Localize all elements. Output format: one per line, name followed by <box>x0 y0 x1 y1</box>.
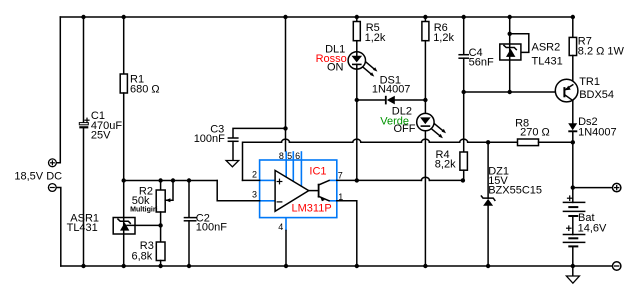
node R2 bus left <box>122 178 126 182</box>
svg-text:100nF: 100nF <box>194 133 225 145</box>
wire C1 column upper <box>83 17 85 123</box>
node bottom bus DZ1 <box>486 264 490 268</box>
node top bus R1 <box>122 15 126 19</box>
wire DS1 right <box>395 99 426 101</box>
label R8 270ohm <box>515 118 550 139</box>
svg-text:5: 5 <box>287 151 292 161</box>
LED DL1 <box>348 52 365 69</box>
wire R4 down <box>463 170 465 180</box>
node bottom bus R3 <box>158 264 162 268</box>
node R2 bus R2 <box>158 178 162 182</box>
wire pin2 feed <box>243 179 260 181</box>
wire R3 to bottom <box>160 261 162 267</box>
svg-text:TL431: TL431 <box>532 55 563 67</box>
node plus output branch <box>571 185 575 189</box>
svg-text:4: 4 <box>278 222 283 232</box>
wire C1 column lower <box>83 127 85 266</box>
LED DL1 arrows <box>363 62 377 76</box>
op-amp IC1 pin stubs <box>260 180 337 230</box>
label C1 470uF 25V <box>91 110 122 142</box>
wire C3 branch <box>233 128 286 137</box>
svg-text:TL431: TL431 <box>67 222 98 234</box>
terminal minus output <box>613 262 621 270</box>
node bottom bus C2 <box>187 264 191 268</box>
label DL2 Verde OFF <box>380 106 415 136</box>
wire R5 stub <box>356 17 358 22</box>
op-amp IC1 frame <box>260 160 337 218</box>
wire ASR1 ref <box>127 224 161 226</box>
wire R2 to R3 <box>160 212 162 242</box>
wire C2 to bottom <box>188 221 190 266</box>
zener DZ1 <box>481 142 495 266</box>
wire right column top <box>572 17 574 37</box>
resistor R7 <box>569 37 576 55</box>
wire Ds2 down <box>572 131 574 202</box>
label R1 680ohm <box>130 74 160 96</box>
resistor R1 <box>120 74 127 93</box>
node R2 bus wiper <box>171 178 175 182</box>
node DS1 right <box>423 98 427 102</box>
node y92 C4 <box>462 90 466 94</box>
trimmer R2 <box>156 181 173 213</box>
svg-text:8.2 Ω 1W: 8.2 Ω 1W <box>578 45 625 57</box>
wire TR1 collector down <box>572 101 574 124</box>
label ASR1 TL431 <box>67 213 99 235</box>
wire sense y142 <box>243 139 518 180</box>
label ASR2 TL431 <box>532 42 563 68</box>
wire R7 to TR1 <box>572 56 574 85</box>
capacitor C4 <box>458 55 469 59</box>
node top bus C1 <box>81 15 85 19</box>
wire ASR2 column <box>509 17 511 92</box>
wire R1 to bottom <box>123 93 125 266</box>
wire C4 to R4 <box>463 58 465 152</box>
ground bottom right <box>566 266 579 283</box>
label C4 56nF <box>469 47 494 68</box>
node top bus R7 <box>571 15 575 19</box>
svg-text:1,2k: 1,2k <box>433 32 454 44</box>
svg-text:14,6V: 14,6V <box>578 223 607 235</box>
node DZ1 top <box>486 140 490 144</box>
svg-text:1,2k: 1,2k <box>365 32 386 44</box>
shunt regulator ASR2 <box>500 32 529 60</box>
resistor R4 <box>460 152 468 170</box>
shunt regulator ASR1 <box>113 218 135 235</box>
svg-text:1N4007: 1N4007 <box>372 84 411 96</box>
wire minus input drop <box>56 188 61 267</box>
diode DS1 <box>386 96 395 105</box>
svg-text:3: 3 <box>252 190 257 200</box>
svg-text:IC1: IC1 <box>309 165 326 177</box>
node bottom bus C1 <box>81 264 85 268</box>
svg-text:680 Ω: 680 Ω <box>130 83 160 95</box>
node bottom bus DL2 <box>423 264 427 268</box>
node pin7 DL1 <box>355 178 359 182</box>
node top bus R5 <box>355 15 359 19</box>
label TR1 BDX54 <box>579 76 614 101</box>
transistor TR1 <box>555 79 578 102</box>
wire R8 right <box>539 141 573 143</box>
terminal plus input <box>49 159 57 167</box>
svg-text:1N4007: 1N4007 <box>578 126 617 138</box>
svg-text:Multigiri: Multigiri <box>130 204 158 213</box>
wire R2 top stub <box>160 181 162 191</box>
svg-text:TR1: TR1 <box>579 76 600 88</box>
diode Ds2 <box>568 123 577 131</box>
label R3 6,8k <box>132 240 154 263</box>
resistor R5 <box>353 22 360 41</box>
label R5 1,2k <box>365 22 386 44</box>
wire V+ column <box>285 17 287 151</box>
terminal minus input <box>48 184 56 192</box>
battery Bat <box>563 195 586 266</box>
node ASR1 ref junction <box>158 223 162 227</box>
node top bus R6 <box>423 15 427 19</box>
node bottom bus pin1 <box>355 264 359 268</box>
label Ds2 1N4007 <box>578 116 617 138</box>
label R2 50k Multigiri <box>130 185 158 213</box>
wire C2 stub <box>188 181 190 218</box>
wire plus output <box>573 187 613 189</box>
wire pin7 out <box>337 177 463 180</box>
svg-text:56nF: 56nF <box>469 57 494 69</box>
terminal plus output <box>613 183 621 191</box>
wire C3 to ground <box>232 141 234 160</box>
label DS1 1N4007 <box>372 74 411 95</box>
node DS1 left <box>355 98 359 102</box>
wire top bus <box>60 16 573 18</box>
svg-text:18,5V DC: 18,5V DC <box>14 170 62 182</box>
node right column R8 <box>571 140 575 144</box>
label Bat 14,6V <box>578 212 607 234</box>
resistor R6 <box>422 22 429 41</box>
LED DL2 arrows <box>432 124 446 138</box>
node top bus C4 <box>462 15 466 19</box>
node top bus ASR2 <box>508 15 512 19</box>
wire R6 to DL2 <box>424 41 426 114</box>
node pin7 R4 <box>461 178 465 182</box>
svg-text:ON: ON <box>327 61 344 73</box>
node bottom bus pin4 <box>284 264 288 268</box>
node bottom bus battery <box>571 264 575 268</box>
wire pin3 feed <box>217 181 259 201</box>
svg-text:8: 8 <box>279 151 284 161</box>
wire pin1 out <box>337 201 357 266</box>
op-amp IC1 output transistor <box>309 181 329 202</box>
capacitor C3 <box>228 138 239 141</box>
node y92 ASR2 <box>508 90 512 94</box>
label R4 8,2k <box>435 149 456 170</box>
label R6 1,2k <box>433 22 454 44</box>
svg-text:270 Ω: 270 Ω <box>520 126 550 138</box>
wire C4 upper <box>463 17 465 54</box>
svg-text:OFF: OFF <box>394 123 416 135</box>
label R7 8.2ohm 1W <box>578 36 625 58</box>
wire bottom bus <box>61 265 613 267</box>
wire R6 stub <box>424 17 426 22</box>
svg-text:8,2k: 8,2k <box>435 158 456 170</box>
svg-text:ASR2: ASR2 <box>532 42 561 54</box>
node top bus V+ <box>283 15 287 19</box>
label DL1 Rosso ON <box>316 43 347 73</box>
wire R5 to DL1 <box>356 41 358 52</box>
wire y92 <box>464 91 564 93</box>
label C3 100nF <box>194 123 225 145</box>
label C2 100nF <box>196 212 227 233</box>
node V+ C3 junction <box>283 126 287 130</box>
wire R1 column upper <box>123 17 125 74</box>
LED DL2 <box>417 113 434 130</box>
capacitor C2 <box>184 218 197 221</box>
svg-text:7: 7 <box>338 170 343 180</box>
wire DS1 left <box>357 99 386 101</box>
wire left input drop <box>56 17 60 163</box>
svg-text:25V: 25V <box>91 129 111 141</box>
svg-text:LM311P: LM311P <box>292 203 332 215</box>
label pin 8 5 6 <box>279 151 300 161</box>
resistor R3 <box>156 242 165 261</box>
op-amp IC1 pin lines 8 5 6 <box>286 151 301 186</box>
wire DL2 down <box>424 131 426 266</box>
node bottom bus ASR1 <box>122 264 126 268</box>
ground C3 <box>226 161 239 167</box>
op-amp IC1 triangle <box>275 170 309 211</box>
capacitor C1 <box>79 118 89 128</box>
svg-text:6,8k: 6,8k <box>132 251 153 263</box>
label DZ1 15V BZX55C15 <box>488 166 542 197</box>
svg-text:BDX54: BDX54 <box>579 89 614 101</box>
node R2 bus C2 <box>187 178 191 182</box>
resistor R8 <box>518 139 539 146</box>
svg-text:2: 2 <box>252 170 257 180</box>
svg-text:100nF: 100nF <box>196 221 227 233</box>
wire R2 bus <box>124 180 218 182</box>
wire pin4 down <box>285 231 287 267</box>
svg-text:6: 6 <box>295 151 300 161</box>
svg-text:BZX55C15: BZX55C15 <box>488 184 542 196</box>
wire DL1 down <box>356 69 358 180</box>
